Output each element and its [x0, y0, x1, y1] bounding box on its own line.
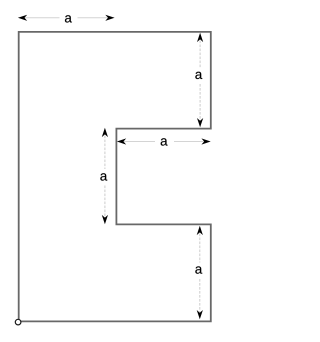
label a notch — [161, 138, 168, 145]
arrowhead left — [18, 15, 27, 21]
label a right-upper — [195, 72, 202, 79]
label a right-lower — [195, 266, 202, 273]
arrowhead down — [102, 215, 108, 224]
dimension a right-upper: line — [195, 33, 203, 128]
dimension a notch: line — [117, 138, 211, 145]
label a top — [65, 15, 72, 22]
arrowhead down — [197, 310, 203, 319]
dimension a right-lower: line — [195, 226, 203, 319]
arrowhead up — [197, 33, 203, 42]
label a left — [100, 173, 107, 180]
arrowhead right — [201, 138, 210, 144]
arrowhead down — [197, 118, 203, 127]
arrowhead up — [197, 226, 203, 235]
arrowhead right — [105, 15, 114, 21]
arrowhead up — [102, 128, 108, 137]
arrowhead left — [117, 138, 126, 144]
plate outline (2a x 3a with a x a notch) — [19, 32, 211, 322]
dimension a top: line — [18, 15, 115, 23]
pivot circle at bottom-left corner — [15, 319, 21, 325]
dimension a left (notch height): line — [100, 128, 108, 224]
